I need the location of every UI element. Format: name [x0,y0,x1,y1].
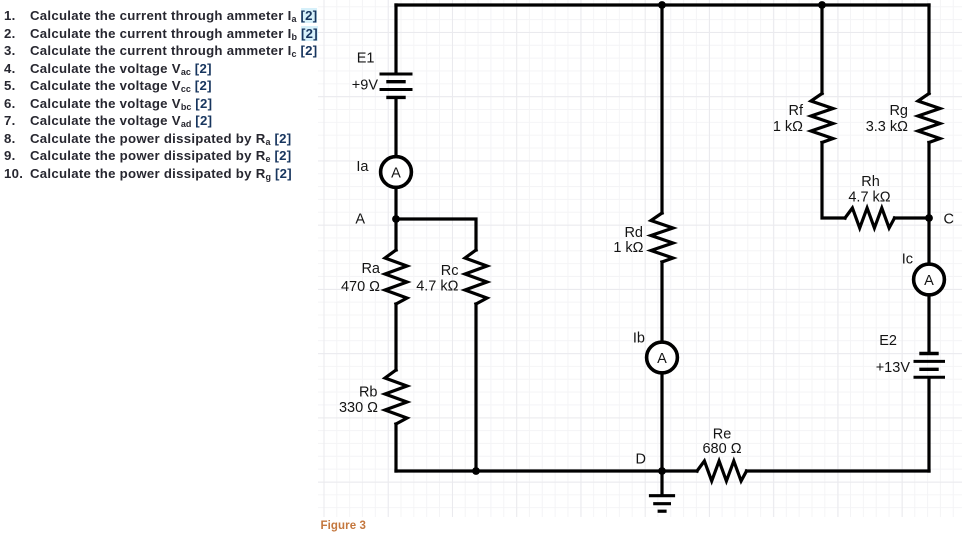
wire: top rail to Rd [660,5,663,213]
battery E2 [876,333,944,377]
svg-text:680 Ω: 680 Ω [702,441,741,457]
svg-text:E2: E2 [879,333,897,349]
wire: top rail to Rf [820,5,823,94]
node A [355,212,400,228]
junction at Rf top rail [818,1,826,9]
svg-text:+13V: +13V [876,360,911,376]
svg-text:4.7 kΩ: 4.7 kΩ [848,190,890,206]
node C [925,212,954,228]
wire: E1 top lead [394,5,397,73]
svg-text:Rc: Rc [441,263,459,279]
ammeter Ib [633,331,677,373]
svg-text:Ic: Ic [902,252,913,268]
grid paper background [318,0,962,517]
svg-text:Rf: Rf [789,103,804,119]
svg-text:Ia: Ia [356,159,369,175]
wire: bottom rail left [396,469,697,472]
resistor Rb [339,370,407,424]
wire: node A to Rc branch [396,219,476,250]
ground [651,471,674,511]
svg-text:Rh: Rh [861,174,880,190]
svg-text:Rd: Rd [624,225,643,241]
svg-text:470 Ω: 470 Ω [341,279,380,295]
svg-text:1 kΩ: 1 kΩ [613,240,643,256]
svg-text:A: A [657,351,667,367]
ammeter Ia [356,157,411,188]
wire: Rh to node C [895,216,930,219]
resistor Rc [416,250,487,304]
wire: Ra to Rb [394,304,397,370]
wire: bottom rail right [747,469,930,472]
wire: E1 to ammeter Ia [394,99,397,157]
wire: Rb to bottom rail [394,424,397,471]
resistor Ra [341,250,407,304]
wire: Rd to ammeter Ib [660,262,663,342]
junction at Rc / bottom rail [472,467,480,475]
wire: node A to Ra [394,219,397,250]
svg-text:1 kΩ: 1 kΩ [773,119,803,135]
resistor Re [697,427,747,482]
wire: ammeter Ib to node D [660,373,663,471]
wire: top rail to Rg [927,5,930,94]
svg-text:3.3 kΩ: 3.3 kΩ [866,119,908,135]
svg-text:Ra: Ra [361,261,380,277]
wire: top rail [396,3,929,6]
wire: Rf down to Rh [822,143,845,219]
question list [4,7,334,182]
wire: E2 to bottom rail [927,379,930,471]
svg-text:A: A [924,273,934,289]
wire: Rg to node C [927,143,930,219]
svg-text:C: C [944,212,954,228]
resistor Rg [866,94,940,143]
wire: Rc to bottom rail [474,304,477,471]
figure caption [321,520,367,532]
svg-text:Rb: Rb [359,385,378,401]
svg-text:A: A [355,212,365,228]
svg-text:330 Ω: 330 Ω [339,400,378,416]
svg-text:+9V: +9V [352,78,379,94]
junction at Rd top rail [658,1,666,9]
svg-text:D: D [636,452,646,468]
resistor Rh [845,174,895,228]
svg-text:A: A [391,166,401,182]
wire: node C to ammeter Ic [927,218,930,264]
svg-text:Rg: Rg [889,103,908,119]
resistor Rd [613,213,673,262]
svg-text:4.7 kΩ: 4.7 kΩ [416,279,458,295]
svg-text:Ib: Ib [633,331,645,347]
wire: ammeter Ic to E2 [927,295,930,352]
svg-text:E1: E1 [357,51,375,67]
wire: ammeter Ia to node A [394,187,397,219]
node D [636,452,666,475]
resistor Rf [773,94,833,143]
battery E1 [352,51,411,98]
ammeter Ic [902,252,945,295]
